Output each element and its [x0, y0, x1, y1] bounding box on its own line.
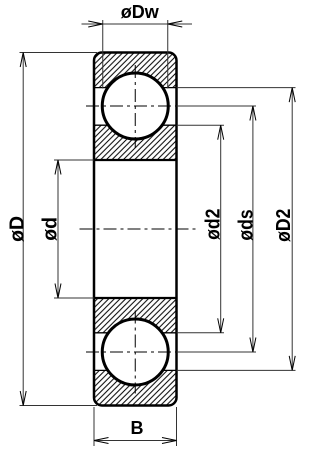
- dimension oD2 extension bottom: [177, 369, 296, 371]
- inner ring shoulder line (bottom): [94, 332, 177, 334]
- outer ring bottom (hatched): [94, 370, 177, 405]
- ball top: [102, 73, 168, 139]
- bore surface line (top): [94, 159, 177, 161]
- dimension oD2 arrow bottom: [289, 356, 295, 371]
- ball bottom: [102, 319, 168, 385]
- dimension B line: [94, 440, 177, 442]
- outer ring inner surface line (top): [94, 87, 177, 89]
- dimension oDw extension left: [102, 20, 104, 89]
- outer ring inner surface line (bottom): [94, 369, 177, 371]
- dimension od2 extension top: [177, 124, 225, 126]
- svg-text:ød2: ød2: [201, 209, 223, 240]
- top ball vertical centerline: [134, 65, 136, 148]
- svg-text:øds: øds: [234, 209, 256, 240]
- dimension od2 line: [220, 125, 222, 333]
- svg-text:øD2: øD2: [272, 209, 294, 242]
- dimension od2 arrow bottom: [218, 318, 224, 333]
- dimension oDw arrow right: [168, 21, 183, 27]
- dimension oDw line: [82, 23, 193, 25]
- dimension od extension top: [54, 159, 94, 161]
- dimension oD arrow bottom: [20, 391, 26, 406]
- dimension oD extension top: [20, 52, 98, 54]
- svg-text:B: B: [131, 418, 144, 438]
- inner ring shoulder line (top): [94, 124, 177, 126]
- inner ring bottom (hatched): [94, 298, 177, 333]
- top ball horizontal centerline: [86, 105, 180, 107]
- dimension oD2 arrow top: [289, 88, 295, 103]
- dimension ods extension top: [177, 105, 257, 107]
- bottom ball vertical centerline: [134, 311, 136, 394]
- dimension B extension left: [93, 407, 95, 446]
- dimension od2 extension bottom: [177, 332, 225, 334]
- dimension oD extension bottom: [20, 405, 98, 407]
- bearing outline: [94, 53, 177, 406]
- main centerline: [80, 228, 196, 230]
- dimension B arrow right: [162, 438, 177, 444]
- dimension od arrow top: [55, 160, 61, 175]
- dimension ods arrow top: [250, 106, 256, 121]
- dimension od extension bottom: [54, 297, 94, 299]
- dimension B arrow left: [94, 438, 109, 444]
- dimension od arrow bottom: [55, 284, 61, 299]
- dimension od line: [57, 160, 59, 298]
- dimension od2 arrow top: [218, 125, 224, 140]
- dimension oD2 line: [291, 88, 293, 371]
- dimension ods arrow bottom: [250, 338, 256, 353]
- dimension oD line: [22, 53, 24, 406]
- bottom ball horizontal centerline: [86, 351, 180, 353]
- outer ring top (hatched): [94, 53, 177, 88]
- bore surface line (bottom): [94, 297, 177, 299]
- svg-text:øD: øD: [6, 216, 28, 242]
- dimension B extension right: [176, 407, 178, 446]
- inner ring top (hatched): [94, 125, 177, 160]
- dimension oD arrow top: [20, 53, 26, 68]
- dimension ods line: [252, 106, 254, 352]
- dimension oDw arrow left: [88, 21, 103, 27]
- dimension oD2 extension top: [177, 87, 296, 89]
- svg-text:ød: ød: [39, 217, 61, 241]
- dimension ods extension bottom: [177, 351, 257, 353]
- dimension oDw extension right: [167, 20, 169, 89]
- svg-text:øDw: øDw: [121, 2, 160, 22]
